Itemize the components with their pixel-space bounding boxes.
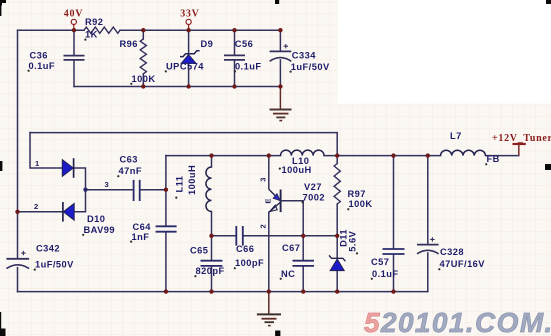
corner mark left-middle [0,161,2,171]
svg-text:C334: C334 [292,51,316,61]
wire pin2 from left rail [18,211,63,213]
wire C64 riser [165,156,167,292]
wire pin3 to C63 [86,189,166,191]
diode D11 zener 5.6V [329,255,345,270]
wire bottom ground rail [18,291,428,293]
svg-text:1uF/50V: 1uF/50V [35,260,74,270]
svg-text:V27: V27 [304,182,322,192]
wire L11 stubs [211,156,213,236]
wire C65 branch [211,236,213,292]
capacitor C66 [236,226,243,246]
svg-text:L7: L7 [450,131,462,141]
svg-text:C328: C328 [440,247,464,257]
svg-text:2: 2 [34,202,38,211]
svg-text:BAV99: BAV99 [84,225,116,235]
wire C57 branch [393,156,395,292]
wire section2 top rail [30,133,337,156]
svg-text:1nF: 1nF [132,232,150,242]
svg-text:C63: C63 [120,155,138,165]
svg-text:100uH: 100uH [282,165,312,175]
junction dots top section [72,28,283,89]
svg-text:100uH: 100uH [187,165,197,195]
svg-text:C36: C36 [30,51,48,61]
power port +12V_Tuner [492,133,551,155]
capacitor C63 [134,180,140,201]
capacitor C334 polarized [270,44,292,61]
svg-text:3: 3 [259,177,268,181]
svg-text:100K: 100K [132,74,156,84]
svg-text:C342: C342 [36,244,60,254]
resistor R92 [84,27,120,33]
parameter marker dots [28,39,488,280]
wire main mid rail [166,155,519,157]
wire C342 tail [17,268,19,292]
node junction D10 common [83,188,87,192]
corner mark bottom-left [0,329,6,336]
wire left rail [17,30,19,258]
svg-text:1uF/50V: 1uF/50V [291,62,330,72]
svg-text:1K: 1K [85,30,98,40]
svg-text:40V: 40V [64,9,83,20]
diode D10 half B (BAV99) [63,202,74,222]
transistor V27 7002 [269,156,303,213]
wire R97 stubs [336,156,338,236]
wire D9 stubs [188,30,190,86]
corner mark top-left [0,0,6,3]
corner mark bottom-middle [275,331,280,336]
corner mark top-right [546,0,551,4]
svg-text:C57: C57 [371,257,389,267]
svg-text:3: 3 [105,180,109,189]
svg-text:C64: C64 [133,222,152,232]
capacitor C56 [224,55,245,60]
resistor R96 [140,39,146,74]
wire C56 branch [234,30,236,86]
svg-text:100K: 100K [349,199,373,209]
wire C66 row [212,235,304,237]
svg-text:0.1uF: 0.1uF [372,269,399,279]
svg-text:R97: R97 [348,189,366,199]
corner mark right-middle [545,164,551,170]
junction dots mid section [15,153,430,293]
svg-text:FB: FB [487,154,500,164]
svg-text:L11: L11 [175,176,185,193]
power port 40V [64,9,83,30]
wire D11 column [303,236,337,292]
svg-text:R96: R96 [120,39,138,49]
wire R96 stubs [142,30,144,86]
wire emitter drop [268,212,270,291]
capacitor C65 [201,261,223,266]
svg-text:+12V_Tuner: +12V_Tuner [492,133,551,144]
wire C67 branch [302,201,304,292]
svg-text:0.1uF: 0.1uF [29,61,56,71]
svg-text:UPC574: UPC574 [166,62,204,72]
capacitor C328 polarized [417,237,439,254]
inductor L11 [206,167,212,211]
wire D10 cathode link [74,168,86,212]
svg-text:C66: C66 [236,244,254,254]
svg-text:D10: D10 [87,214,105,224]
svg-text:7002: 7002 [303,192,325,202]
capacitor C36 [64,56,85,60]
svg-text:47UF/16V: 47UF/16V [440,259,486,269]
svg-text:100pF: 100pF [235,258,264,268]
inductor L10 [281,150,325,155]
diode D9 zener UPC574 [180,51,200,64]
ground (top, below C334) [270,87,292,121]
svg-text:520101.COM.: 520101.COM. [364,307,551,336]
svg-text:5.6V: 5.6V [348,230,358,251]
svg-text:C67: C67 [282,243,300,253]
wire bottom rail of top section [74,86,280,88]
svg-text:R92: R92 [85,17,103,27]
capacitor C67 [293,261,315,266]
capacitor C342 polarized [6,251,29,269]
wire C328 branch [427,156,429,292]
wire C36 branch [73,30,75,86]
inductor L7 [441,150,486,155]
svg-text:NC: NC [281,269,295,279]
capacitor C64 [156,226,177,231]
power port 33V [180,9,199,30]
ground (bottom, at emitter rail) [257,292,281,326]
svg-text:C56: C56 [235,39,253,49]
svg-text:820pF: 820pF [196,266,225,276]
diode D10 half A (BAV99) [62,158,73,178]
svg-text:E: E [264,199,273,204]
capacitor C57 [383,249,405,254]
wire top rail 40V/33V [18,29,281,31]
svg-text:0.1uF: 0.1uF [235,62,262,72]
svg-text:D9: D9 [201,39,214,49]
corner mark top-middle [275,0,279,4]
resistor R97 [334,164,340,205]
white panel top-right [338,0,551,104]
svg-text:33V: 33V [180,9,199,20]
wire pin1 drop [30,133,62,168]
wire C334 branch [279,30,281,86]
svg-text:C65: C65 [190,246,208,256]
svg-text:2: 2 [259,224,268,228]
svg-text:47nF: 47nF [119,166,143,176]
